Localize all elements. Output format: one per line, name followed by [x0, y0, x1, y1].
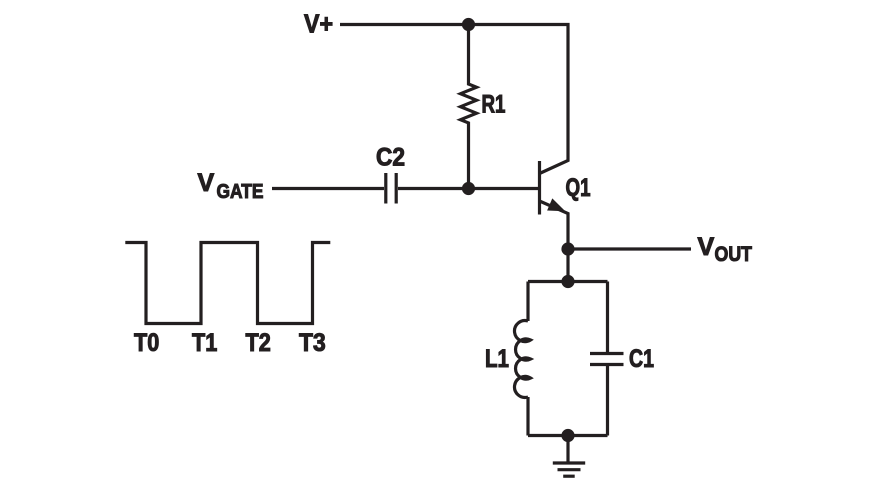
svg-text:T1: T1: [192, 329, 217, 357]
svg-text:V: V: [698, 233, 715, 261]
svg-text:T3: T3: [299, 329, 326, 357]
svg-text:Q1: Q1: [566, 174, 591, 202]
svg-text:R1: R1: [482, 90, 506, 118]
svg-text:L1: L1: [485, 345, 509, 373]
svg-text:T0: T0: [134, 329, 159, 357]
svg-text:T2: T2: [246, 329, 271, 357]
svg-text:V: V: [198, 169, 215, 197]
svg-text:V+: V+: [304, 9, 333, 39]
svg-text:OUT: OUT: [715, 242, 753, 266]
svg-text:C1: C1: [629, 345, 654, 373]
svg-text:GATE: GATE: [217, 180, 264, 203]
svg-text:C2: C2: [376, 144, 405, 172]
